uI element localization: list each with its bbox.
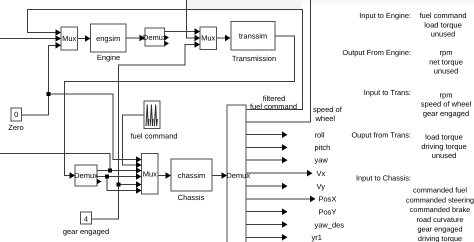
svg-text:Vx: Vx [317, 169, 326, 178]
svg-text:Zero: Zero [8, 123, 23, 132]
svg-text:transsim: transsim [239, 32, 267, 41]
svg-text:yr1: yr1 [312, 233, 322, 242]
svg-text:Input to Chassis:: Input to Chassis: [356, 174, 411, 183]
svg-text:roll: roll [315, 130, 325, 139]
svg-text:gear engaged: gear engaged [423, 109, 469, 118]
svg-text:Mux: Mux [62, 34, 76, 43]
svg-text:wheel: wheel [315, 114, 336, 123]
svg-text:Ouput from Trans:: Ouput from Trans: [351, 131, 411, 140]
svg-text:commanded fuel: commanded fuel [413, 186, 467, 195]
svg-text:unused: unused [434, 67, 459, 76]
svg-text:driving torque: driving torque [418, 234, 462, 242]
svg-text:Demux: Demux [226, 171, 250, 180]
svg-text:speed of wheel: speed of wheel [421, 100, 472, 109]
svg-text:Vy: Vy [317, 182, 326, 191]
svg-text:commanded steering: commanded steering [406, 195, 474, 204]
svg-text:rpm: rpm [440, 48, 453, 57]
svg-text:4: 4 [84, 214, 88, 223]
svg-text:gear engaged: gear engaged [417, 225, 462, 234]
svg-text:rpm: rpm [440, 91, 453, 100]
svg-text:yaw_des: yaw_des [315, 221, 345, 230]
svg-text:engsim: engsim [96, 34, 120, 43]
svg-text:Demux: Demux [74, 171, 98, 180]
svg-text:Transmission: Transmission [232, 54, 276, 63]
svg-text:fuel command: fuel command [419, 11, 466, 20]
svg-text:Engine: Engine [97, 53, 120, 62]
svg-text:Input to Engine:: Input to Engine: [359, 11, 411, 20]
svg-text:Chassis: Chassis [178, 193, 205, 202]
svg-text:driving torque: driving torque [421, 142, 466, 151]
svg-text:gear engaged: gear engaged [63, 227, 109, 236]
svg-text:unused: unused [432, 151, 457, 160]
svg-text:road curvature: road curvature [416, 215, 463, 224]
svg-text:Demux: Demux [143, 33, 167, 42]
svg-text:PosY: PosY [319, 207, 337, 216]
svg-text:commanded brake: commanded brake [410, 205, 470, 214]
svg-text:0: 0 [14, 110, 18, 119]
svg-text:pitch: pitch [315, 143, 331, 152]
svg-text:fuel command: fuel command [130, 132, 177, 141]
svg-text:speed of: speed of [313, 105, 343, 114]
svg-text:Output From Engine:: Output From Engine: [342, 48, 411, 57]
svg-text:yaw: yaw [315, 156, 329, 165]
svg-text:load torque: load torque [424, 20, 462, 29]
svg-text:unused: unused [431, 30, 456, 39]
svg-text:chassim: chassim [178, 171, 206, 180]
svg-text:Mux: Mux [201, 34, 215, 43]
svg-text:fuel command: fuel command [250, 102, 297, 111]
svg-text:Input to Trans:: Input to Trans: [364, 88, 411, 97]
svg-text:net torque: net torque [429, 57, 463, 66]
svg-text:Mux: Mux [143, 169, 157, 178]
svg-text:load torque: load torque [425, 133, 463, 142]
svg-text:PosX: PosX [319, 195, 337, 204]
